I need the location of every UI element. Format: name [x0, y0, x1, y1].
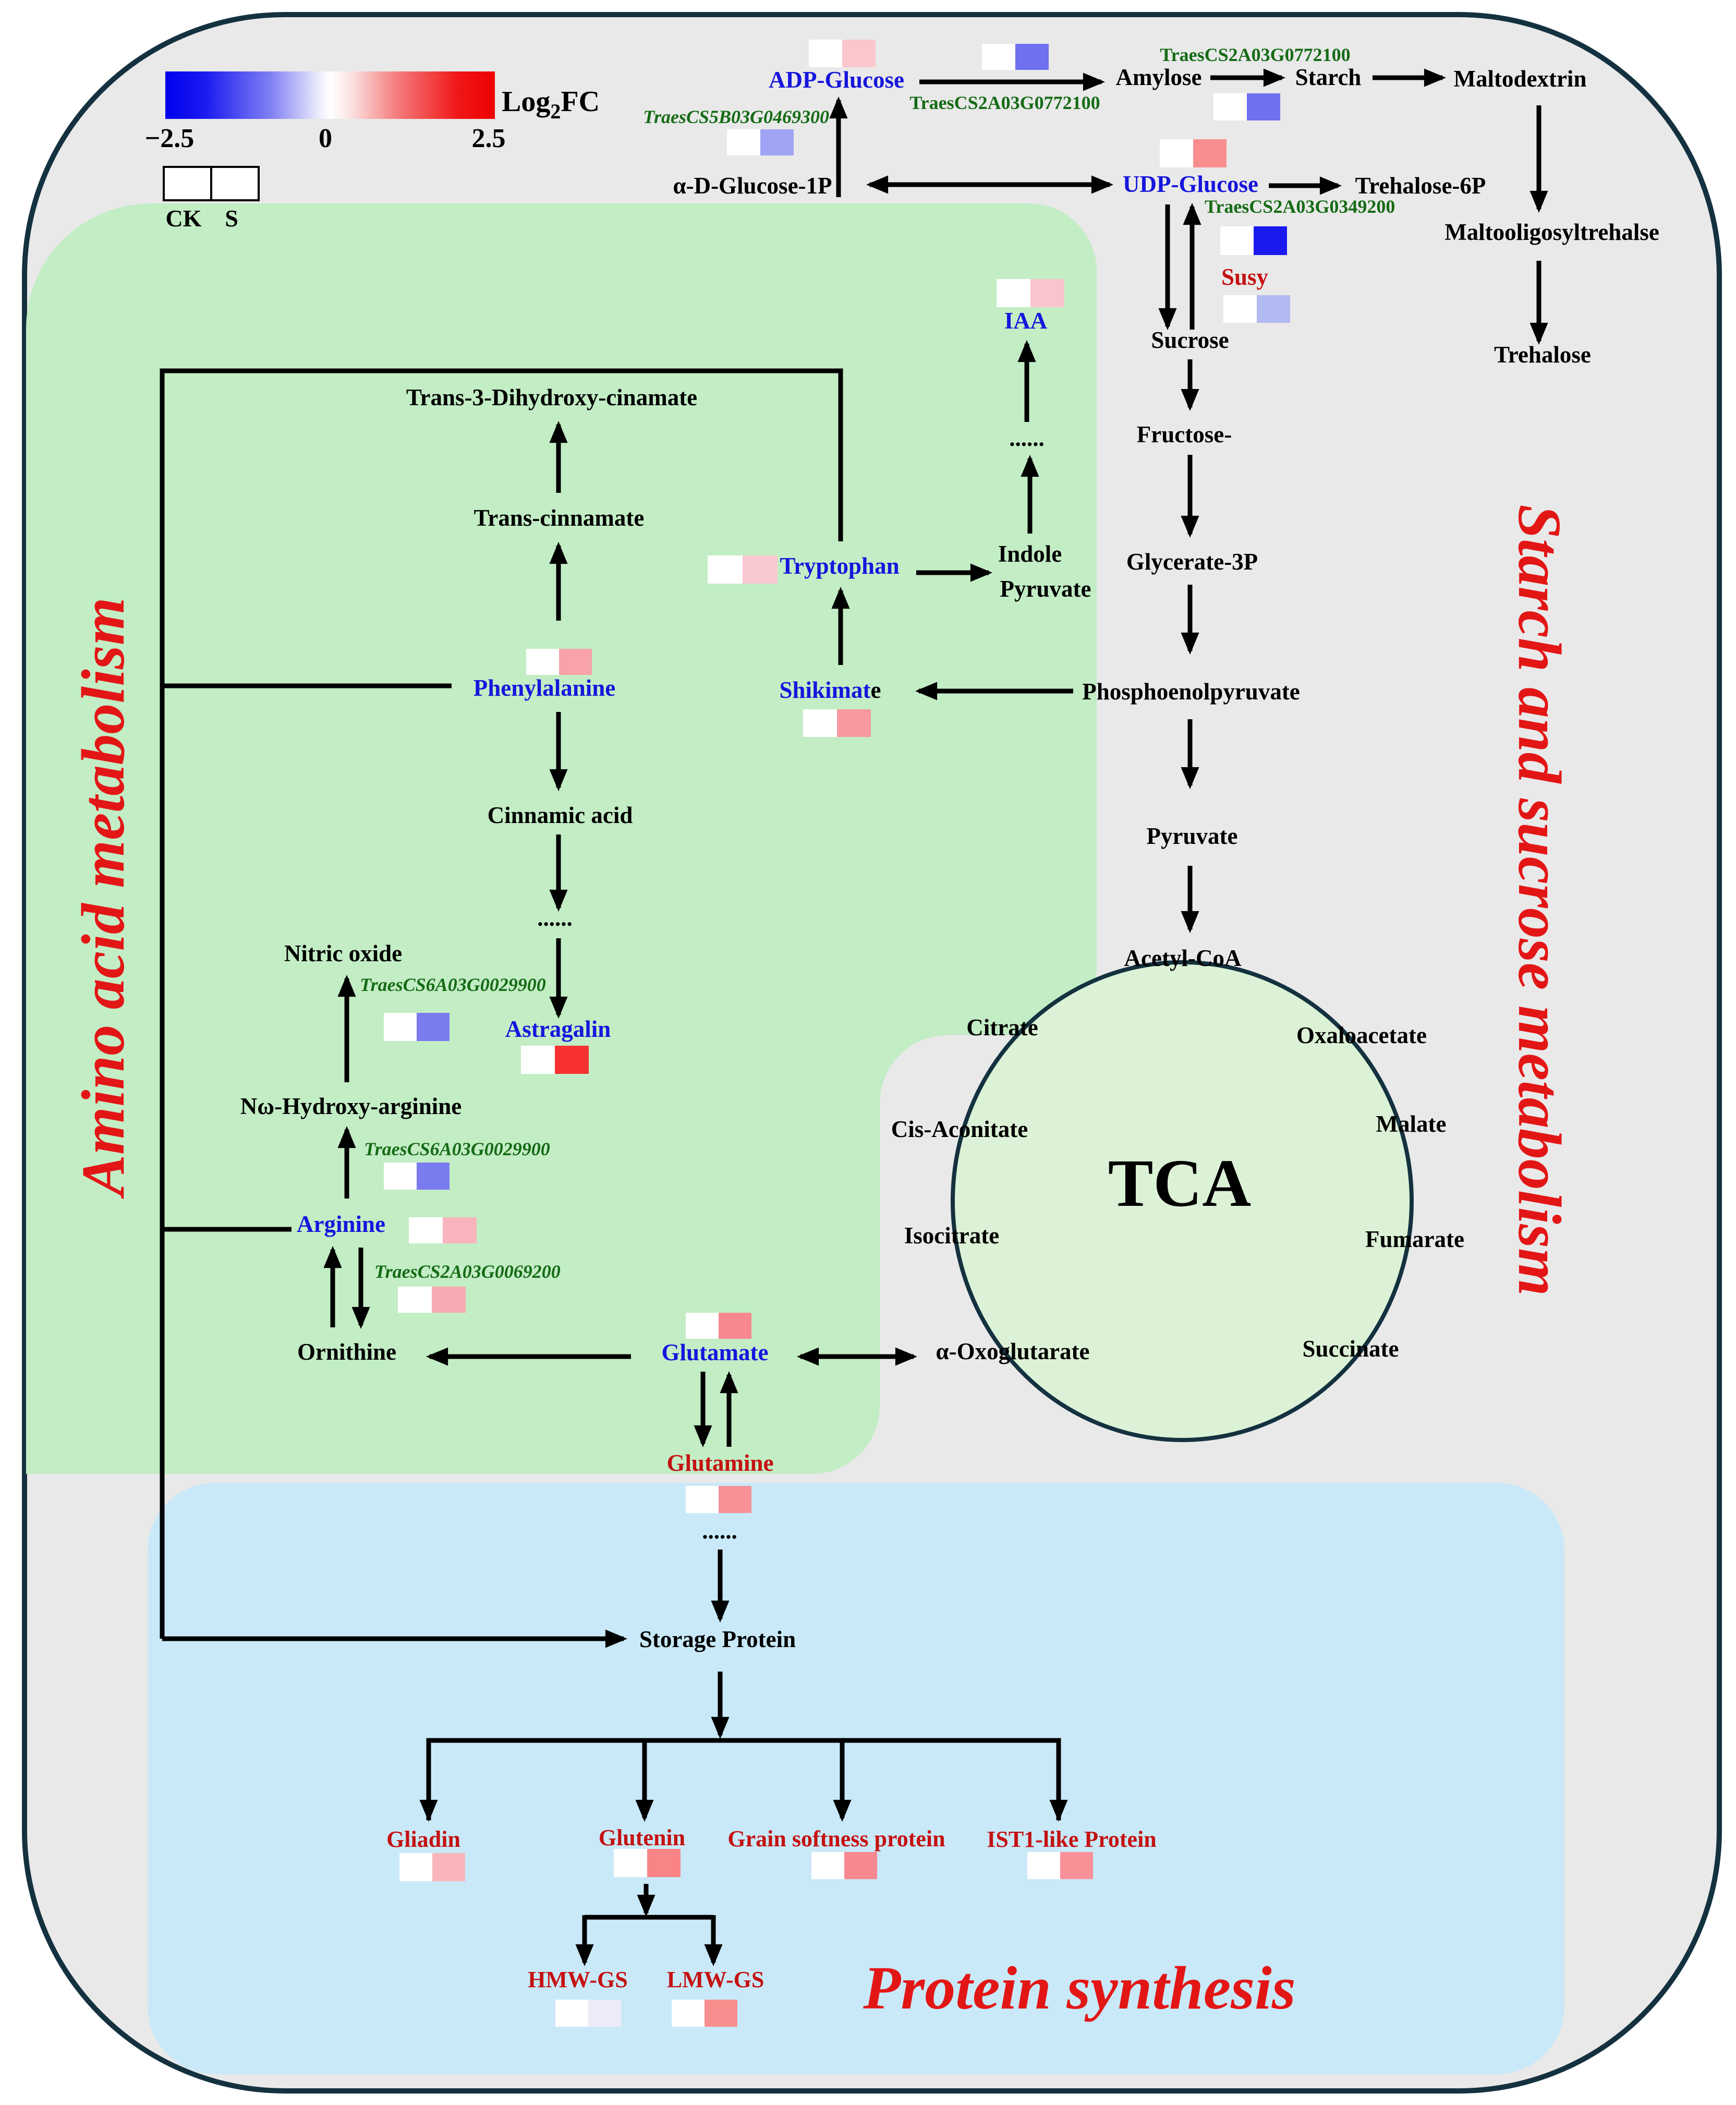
heatmap Glutamate: [686, 1313, 751, 1339]
legend color scale bar: [165, 71, 495, 119]
svg-text:TraesCS2A03G0349200: TraesCS2A03G0349200: [1205, 196, 1395, 217]
svg-text:Astragalin: Astragalin: [505, 1016, 611, 1042]
arrow Maltodextrin to Maltooligosyltrehalse: [1537, 105, 1541, 209]
svg-text:Amylose: Amylose: [1116, 64, 1202, 90]
svg-text:2.5: 2.5: [472, 124, 506, 153]
svg-text:TraesCS6A03G0029900: TraesCS6A03G0029900: [360, 974, 546, 995]
protein synthesis blue region: [148, 1483, 1564, 2074]
svg-text:Trans-cinnamate: Trans-cinnamate: [474, 505, 645, 531]
arrow Tryptophan to Indole Pyruvate: [916, 571, 989, 575]
wire protein branch: [429, 1740, 1059, 1820]
svg-text:Isocitrate: Isocitrate: [904, 1223, 999, 1249]
svg-text:Protein synthesis: Protein synthesis: [863, 1954, 1295, 2022]
svg-text:Amino acid metabolism: Amino acid metabolism: [69, 597, 137, 1199]
heatmap Gliadin: [399, 1853, 465, 1881]
svg-text:0: 0: [319, 124, 332, 153]
arrow UDP-Glucose down to Sucrose: [1166, 204, 1170, 326]
heatmap TraesCS6A03G0029900 second: [384, 1163, 450, 1190]
wire big loop: Tryptophan up over to left rail: [162, 371, 841, 1639]
arrow down to Astragalin: [556, 938, 561, 1015]
arrow left rail to Storage Protein: [162, 1637, 624, 1641]
arrow Glutamate to Glutamine: [701, 1372, 706, 1444]
arrow to Gliadin: [427, 1742, 431, 1818]
arrow down to Storage Protein: [718, 1550, 723, 1619]
svg-text:Susy: Susy: [1221, 264, 1269, 290]
svg-text:TraesCS2A03G0772100: TraesCS2A03G0772100: [909, 92, 1100, 113]
svg-text:Tryptophan: Tryptophan: [780, 553, 899, 579]
svg-text:Glycerate-3P: Glycerate-3P: [1126, 549, 1258, 575]
amino acid metabolism green region: [26, 203, 1097, 1474]
svg-text:Maltooligosyltrehalse: Maltooligosyltrehalse: [1444, 219, 1659, 245]
svg-text:IAA: IAA: [1004, 308, 1048, 334]
arrow Starch to Maltodextrin: [1373, 76, 1442, 80]
svg-text:UDP-Glucose: UDP-Glucose: [1123, 171, 1258, 197]
svg-text:CK: CK: [166, 205, 202, 232]
svg-text:Glutenin: Glutenin: [599, 1825, 685, 1850]
wire branch to Arginine: [162, 1227, 292, 1232]
heatmap Grain softness protein: [811, 1852, 877, 1879]
svg-text:TraesCS5B03G0469300: TraesCS5B03G0469300: [643, 106, 829, 127]
arrow Glutamate to a-Oxoglutarate bidirectional: [800, 1354, 914, 1359]
svg-text:Cinnamic acid: Cinnamic acid: [488, 802, 633, 828]
svg-text:Trehalose: Trehalose: [1494, 342, 1591, 368]
svg-text:Trehalose-6P: Trehalose-6P: [1355, 173, 1486, 199]
arrow UDP-Glucose to Trehalose-6P: [1269, 184, 1338, 188]
svg-text:Shikimate: Shikimate: [779, 677, 881, 703]
heatmap UDP-Glucose: [1160, 139, 1227, 167]
svg-text:Malate: Malate: [1376, 1111, 1447, 1137]
TCA circle: [953, 962, 1412, 1440]
heatmap Arginine: [409, 1217, 477, 1243]
svg-text:Maltodextrin: Maltodextrin: [1454, 66, 1587, 92]
heatmap TraesCS2A03G0349200: [1220, 226, 1287, 255]
svg-text:Pyruvate: Pyruvate: [1000, 576, 1091, 602]
svg-text:Trans-3-Dihydroxy-cinamate: Trans-3-Dihydroxy-cinamate: [406, 384, 697, 410]
heatmap Shikimate: [803, 709, 871, 737]
svg-text:Oxaloacetate: Oxaloacetate: [1296, 1022, 1427, 1048]
svg-text:S: S: [225, 205, 238, 232]
svg-text:Gliadin: Gliadin: [386, 1826, 460, 1852]
svg-text:Glutamine: Glutamine: [666, 1450, 773, 1476]
svg-text:LMW-GS: LMW-GS: [667, 1967, 764, 1992]
svg-text:Storage Protein: Storage Protein: [639, 1626, 796, 1652]
arrow PEP to Shikimate: [919, 689, 1073, 694]
arrow to HMW-GS: [582, 1915, 587, 1963]
arrow Arginine to N-Hydroxy-arginine: [345, 1130, 349, 1199]
svg-text:Starch: Starch: [1295, 64, 1362, 90]
arrow Cinnamic acid down: [556, 834, 561, 908]
wire branch to Phenylalanine: [162, 684, 452, 688]
svg-text:Starch and sucrose metabolism: Starch and sucrose metabolism: [1506, 504, 1574, 1296]
svg-text:TraesCS2A03G0069200: TraesCS2A03G0069200: [374, 1261, 561, 1282]
arrow Glycerate-3P to PEP: [1188, 585, 1193, 651]
svg-text:Citrate: Citrate: [966, 1014, 1038, 1041]
legend CK/S boxes: [164, 167, 259, 200]
svg-text:α-Oxoglutarate: α-Oxoglutarate: [936, 1338, 1089, 1364]
arrow Arginine to Ornithine: [359, 1248, 363, 1325]
heatmap TraesCS2A03G0772100: [982, 44, 1049, 70]
arrow Ornithine to Arginine: [331, 1250, 335, 1327]
svg-text:Acetyl-CoA: Acetyl-CoA: [1124, 945, 1242, 971]
svg-text:HMW-GS: HMW-GS: [528, 1967, 627, 1992]
arrow to IST1-like Protein: [1057, 1742, 1061, 1818]
svg-text:TraesCS2A03G0772100: TraesCS2A03G0772100: [1160, 44, 1350, 65]
svg-text:......: ......: [537, 905, 573, 931]
heatmap TraesCS5B03G0469300: [727, 129, 794, 155]
arrow to LMW-GS: [711, 1915, 716, 1963]
svg-text:Sucrose: Sucrose: [1151, 327, 1229, 353]
heatmap Glutamine: [686, 1486, 751, 1513]
arrow Amylose to Starch: [1210, 76, 1282, 80]
svg-text:Phenylalanine: Phenylalanine: [474, 675, 616, 701]
arrow PEP to Pyruvate: [1188, 719, 1193, 785]
arrow Storage Protein down: [718, 1672, 723, 1735]
svg-text:......: ......: [1009, 425, 1045, 451]
arrow Phenylalanine to Trans-cinnamate: [556, 546, 561, 621]
svg-text:Nω-Hydroxy-arginine: Nω-Hydroxy-arginine: [240, 1093, 462, 1119]
svg-text:Indole: Indole: [998, 541, 1062, 567]
svg-text:Succinate: Succinate: [1303, 1336, 1399, 1362]
svg-text:Glutamate: Glutamate: [662, 1339, 769, 1365]
arrow Glucose-1P up to ADP-Glucose: [836, 100, 841, 197]
heatmap TraesCS6A03G0029900: [384, 1013, 450, 1041]
heatmap HMW-GS: [555, 2000, 621, 2027]
svg-text:Cis-Aconitate: Cis-Aconitate: [891, 1116, 1028, 1142]
arrow Fructose to Glycerate-3P: [1188, 455, 1193, 534]
svg-text:Nitric oxide: Nitric oxide: [284, 940, 402, 966]
heatmap IST1-like Protein: [1027, 1852, 1093, 1879]
svg-text:Phosphoenolpyruvate: Phosphoenolpyruvate: [1082, 679, 1300, 705]
arrow up to IAA: [1025, 344, 1029, 422]
wire glutenin branch: [585, 1915, 713, 1920]
heatmap Phenylalanine: [526, 649, 592, 675]
arrow Shikimate to Tryptophan: [839, 590, 843, 665]
svg-text:......: ......: [702, 1518, 737, 1544]
arrow Glutamine to Glutamate: [727, 1375, 732, 1447]
arrow Glutenin down: [644, 1884, 649, 1913]
heatmap Amylose-Starch gene: [1213, 93, 1280, 120]
heatmap TraesCS2A03G0069200: [398, 1287, 466, 1313]
arrow Phenylalanine to Cinnamic acid: [556, 712, 561, 788]
heatmap Glutenin: [614, 1849, 681, 1877]
heatmap Susy: [1223, 295, 1290, 323]
svg-text:Ornithine: Ornithine: [297, 1339, 396, 1365]
svg-text:Fumarate: Fumarate: [1365, 1226, 1464, 1252]
svg-text:Grain softness protein: Grain softness protein: [727, 1826, 945, 1852]
arrow Sucrose to Fructose: [1188, 359, 1193, 407]
arrow to Glutenin: [642, 1740, 647, 1818]
heatmap Astragalin: [521, 1046, 589, 1074]
arrow Trans-cinnamate to Trans-3-Dihydroxy-cinamate: [556, 425, 561, 493]
svg-text:TraesCS6A03G0029900: TraesCS6A03G0029900: [364, 1139, 550, 1159]
heatmap ADP-Glucose: [809, 40, 876, 67]
svg-text:ADP-Glucose: ADP-Glucose: [769, 67, 904, 93]
arrow Maltooligosyltrehalse to Trehalose: [1537, 261, 1541, 341]
arrow Glutamate to Ornithine: [430, 1354, 631, 1359]
arrow ADP-Glucose to Amylose: [919, 80, 1101, 84]
heatmap Tryptophan: [708, 555, 778, 584]
arrow N-Hydroxy-arginine to Nitric oxide: [345, 978, 349, 1082]
svg-text:α-D-Glucose-1P: α-D-Glucose-1P: [673, 173, 832, 199]
svg-text:IST1-like Protein: IST1-like Protein: [987, 1826, 1157, 1852]
arrow Indole Pyruvate up: [1028, 458, 1033, 534]
arrow Pyruvate to Acetyl-CoA: [1188, 866, 1193, 929]
arrow Sucrose up to UDP-Glucose: [1190, 207, 1195, 330]
svg-text:Fructose-: Fructose-: [1137, 421, 1232, 447]
svg-text:TCA: TCA: [1108, 1146, 1251, 1221]
heatmap IAA: [997, 279, 1064, 307]
arrow Glucose-1P to UDP-Glucose bidirectional: [870, 183, 1110, 187]
heatmap LMW-GS: [672, 2000, 737, 2027]
svg-text:Arginine: Arginine: [297, 1211, 385, 1237]
arrow to Grain softness protein: [840, 1740, 845, 1818]
svg-text:−2.5: −2.5: [145, 124, 195, 153]
svg-text:Pyruvate: Pyruvate: [1147, 823, 1238, 849]
